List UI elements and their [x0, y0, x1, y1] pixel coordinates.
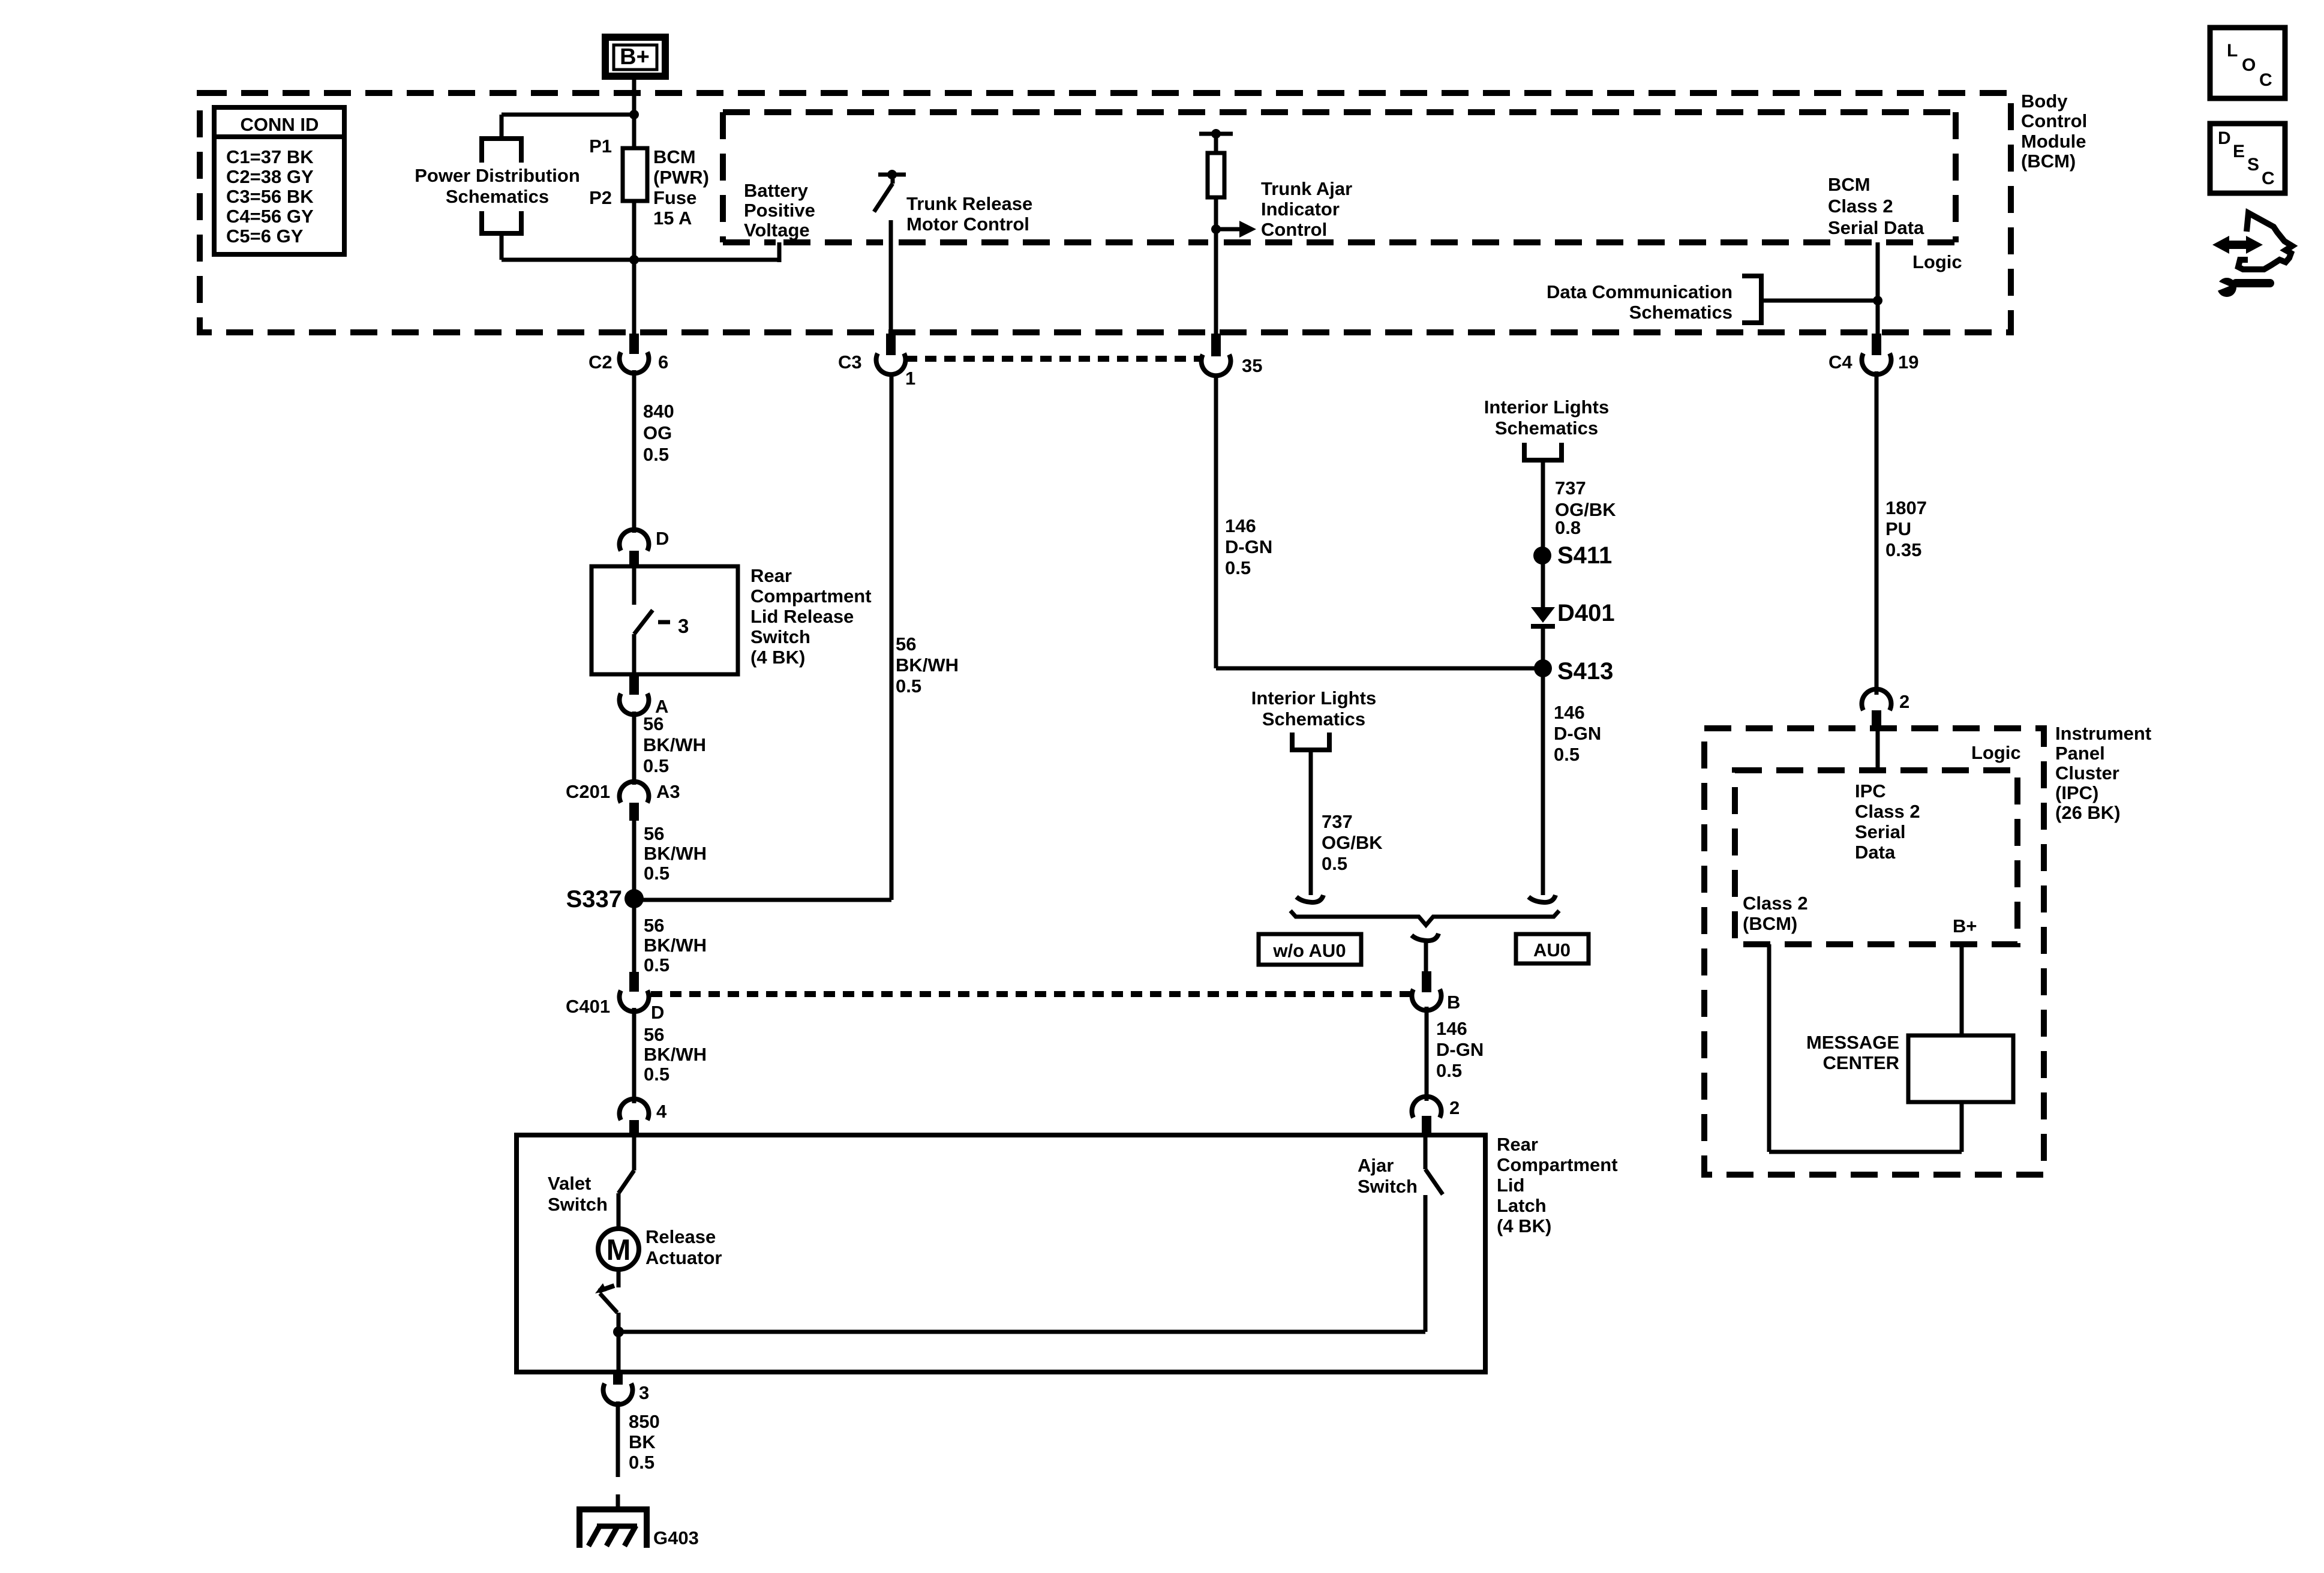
svg-text:Motor Control: Motor Control [906, 214, 1029, 235]
svg-text:Switch: Switch [548, 1194, 608, 1215]
svg-text:Data: Data [1855, 842, 1896, 863]
svg-text:35: 35 [1242, 355, 1262, 376]
svg-text:C: C [2259, 70, 2272, 90]
svg-text:840: 840 [643, 401, 674, 422]
svg-text:Voltage: Voltage [744, 220, 810, 241]
svg-text:Indicator: Indicator [1261, 199, 1340, 220]
svg-text:PU: PU [1885, 518, 1911, 539]
svg-text:56: 56 [644, 1024, 664, 1045]
svg-text:1: 1 [905, 368, 915, 389]
svg-text:(PWR): (PWR) [653, 167, 709, 188]
svg-text:G403: G403 [653, 1527, 699, 1548]
svg-text:BK: BK [629, 1431, 656, 1452]
svg-text:(4 BK): (4 BK) [1497, 1215, 1551, 1236]
svg-text:Compartment: Compartment [750, 586, 872, 607]
svg-text:w/o AU0: w/o AU0 [1272, 940, 1346, 961]
svg-text:4: 4 [656, 1101, 667, 1122]
svg-text:0.5: 0.5 [643, 444, 669, 465]
svg-text:BK/WH: BK/WH [896, 655, 959, 676]
svg-text:2: 2 [1449, 1097, 1460, 1118]
svg-text:S: S [2247, 155, 2259, 175]
svg-text:Panel: Panel [2055, 743, 2105, 764]
svg-text:(IPC): (IPC) [2055, 782, 2098, 803]
svg-text:1807: 1807 [1885, 497, 1927, 518]
svg-text:0.5: 0.5 [644, 954, 669, 975]
svg-text:737: 737 [1322, 811, 1353, 832]
svg-text:3: 3 [678, 615, 689, 637]
svg-text:Serial: Serial [1855, 821, 1905, 842]
svg-text:CONN ID: CONN ID [241, 114, 319, 135]
svg-text:D401: D401 [1557, 600, 1615, 626]
svg-text:P1: P1 [589, 136, 612, 157]
svg-text:S411: S411 [1557, 542, 1612, 569]
svg-text:(26 BK): (26 BK) [2055, 802, 2121, 823]
svg-text:0.5: 0.5 [1436, 1060, 1462, 1081]
svg-text:Latch: Latch [1497, 1195, 1547, 1216]
svg-text:Actuator: Actuator [645, 1247, 722, 1268]
svg-text:19: 19 [1898, 352, 1918, 373]
svg-text:B+: B+ [620, 44, 650, 70]
svg-text:Schematics: Schematics [1629, 302, 1733, 323]
svg-text:D-GN: D-GN [1554, 723, 1601, 744]
svg-text:Fuse: Fuse [653, 187, 696, 208]
svg-text:Switch: Switch [1358, 1176, 1418, 1197]
svg-text:C401: C401 [566, 996, 610, 1017]
svg-text:0.5: 0.5 [644, 1064, 669, 1085]
svg-text:Interior Lights: Interior Lights [1251, 688, 1376, 709]
svg-text:B: B [1447, 992, 1460, 1013]
svg-text:Positive: Positive [744, 200, 815, 221]
svg-text:0.5: 0.5 [1322, 853, 1347, 874]
svg-text:Trunk Release: Trunk Release [906, 193, 1032, 214]
svg-text:0.5: 0.5 [896, 676, 921, 697]
svg-text:BK/WH: BK/WH [644, 843, 707, 864]
svg-text:C1=37 BK: C1=37 BK [226, 146, 314, 167]
svg-text:S413: S413 [1557, 658, 1613, 685]
svg-text:CENTER: CENTER [1823, 1052, 1899, 1073]
svg-text:Rear: Rear [1497, 1134, 1538, 1155]
svg-text:P2: P2 [589, 187, 612, 208]
svg-text:BCM: BCM [1828, 174, 1870, 195]
svg-text:Data Communication: Data Communication [1547, 281, 1733, 302]
svg-text:56: 56 [644, 823, 664, 844]
svg-text:D: D [656, 528, 669, 549]
svg-text:6: 6 [658, 352, 668, 373]
svg-text:0.5: 0.5 [1554, 744, 1580, 765]
svg-text:Lid: Lid [1497, 1175, 1525, 1196]
svg-text:2: 2 [1899, 691, 1909, 712]
svg-text:Trunk Ajar: Trunk Ajar [1261, 178, 1352, 199]
svg-text:(BCM): (BCM) [1743, 913, 1797, 934]
svg-text:737: 737 [1555, 478, 1586, 499]
svg-text:Class 2: Class 2 [1743, 893, 1808, 914]
svg-text:S337: S337 [566, 886, 622, 912]
svg-text:B+: B+ [1953, 915, 1977, 936]
svg-text:(4 BK): (4 BK) [750, 647, 805, 668]
svg-text:Interior Lights: Interior Lights [1484, 397, 1609, 418]
svg-text:56: 56 [643, 713, 663, 734]
svg-text:Control: Control [2021, 110, 2087, 131]
svg-text:Serial Data: Serial Data [1828, 217, 1924, 238]
svg-text:0.8: 0.8 [1555, 517, 1581, 538]
svg-text:146: 146 [1554, 702, 1585, 723]
svg-text:C2=38 GY: C2=38 GY [226, 166, 314, 187]
svg-text:Schematics: Schematics [1495, 418, 1598, 439]
svg-text:Logic: Logic [1912, 251, 1962, 272]
svg-text:C201: C201 [566, 781, 610, 802]
svg-text:AU0: AU0 [1533, 939, 1571, 960]
svg-text:0.5: 0.5 [1225, 557, 1251, 578]
svg-text:IPC: IPC [1855, 781, 1886, 801]
svg-text:146: 146 [1436, 1018, 1467, 1039]
svg-text:M: M [606, 1234, 631, 1266]
svg-text:BCM: BCM [653, 146, 696, 167]
svg-text:56: 56 [644, 915, 664, 936]
svg-text:0.35: 0.35 [1885, 539, 1921, 560]
svg-text:E: E [2233, 142, 2245, 161]
svg-text:C: C [2262, 169, 2275, 188]
svg-text:(BCM): (BCM) [2021, 151, 2076, 172]
svg-text:Cluster: Cluster [2055, 763, 2119, 784]
svg-text:0.5: 0.5 [629, 1452, 654, 1473]
svg-text:0.5: 0.5 [643, 755, 669, 776]
svg-text:Lid Release: Lid Release [750, 606, 854, 627]
svg-text:Instrument: Instrument [2055, 723, 2151, 744]
svg-text:Switch: Switch [750, 626, 810, 647]
svg-text:Compartment: Compartment [1497, 1154, 1618, 1175]
svg-text:O: O [2242, 55, 2256, 75]
svg-text:BK/WH: BK/WH [644, 935, 707, 956]
svg-text:C4: C4 [1828, 352, 1852, 373]
svg-text:BK/WH: BK/WH [644, 1044, 707, 1065]
svg-text:Control: Control [1261, 219, 1327, 240]
svg-text:Body: Body [2021, 91, 2068, 112]
svg-text:56: 56 [896, 634, 916, 655]
svg-text:C3=56 BK: C3=56 BK [226, 186, 314, 207]
svg-text:Rear: Rear [750, 565, 792, 586]
svg-text:Release: Release [645, 1226, 716, 1247]
svg-text:Schematics: Schematics [1262, 709, 1365, 730]
svg-text:C2: C2 [588, 352, 612, 373]
svg-text:Logic: Logic [1971, 742, 2021, 763]
svg-text:850: 850 [629, 1411, 660, 1432]
svg-text:MESSAGE: MESSAGE [1806, 1032, 1899, 1053]
svg-text:BK/WH: BK/WH [643, 734, 706, 755]
svg-text:Class 2: Class 2 [1828, 196, 1893, 217]
svg-text:A3: A3 [656, 781, 680, 802]
svg-text:D: D [2218, 128, 2231, 148]
svg-text:15 A: 15 A [653, 208, 692, 229]
svg-text:0.5: 0.5 [644, 863, 669, 884]
svg-text:D: D [651, 1002, 664, 1023]
svg-text:OG/BK: OG/BK [1322, 832, 1383, 853]
svg-text:C3: C3 [838, 352, 862, 373]
svg-text:L: L [2227, 41, 2238, 61]
svg-text:Schematics: Schematics [446, 186, 549, 207]
svg-text:OG: OG [643, 422, 672, 443]
svg-text:C5=6 GY: C5=6 GY [226, 226, 304, 247]
svg-text:Valet: Valet [548, 1173, 591, 1194]
svg-text:Power Distribution: Power Distribution [415, 165, 580, 186]
svg-text:Module: Module [2021, 131, 2086, 152]
svg-text:Class 2: Class 2 [1855, 801, 1920, 822]
svg-text:Ajar: Ajar [1358, 1155, 1394, 1176]
svg-text:Battery: Battery [744, 180, 809, 201]
svg-text:C4=56 GY: C4=56 GY [226, 206, 314, 227]
svg-text:3: 3 [639, 1382, 649, 1403]
svg-text:D-GN: D-GN [1436, 1039, 1484, 1060]
svg-text:D-GN: D-GN [1225, 536, 1272, 557]
svg-text:146: 146 [1225, 515, 1256, 536]
